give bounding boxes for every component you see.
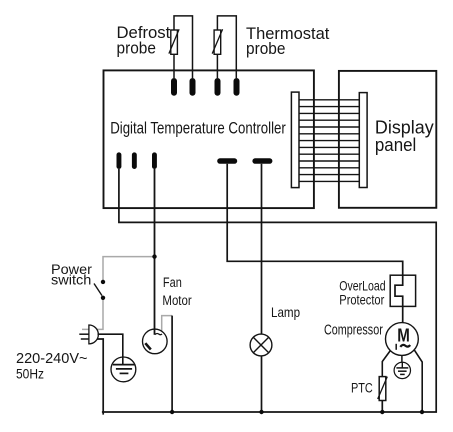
wire: plug middle to earth ground — [98, 334, 123, 364]
terminal pills top (4) — [171, 78, 240, 96]
wire: lamp top from pill5 — [261, 164, 263, 334]
ground (mains earth) — [111, 357, 136, 382]
wire: compressor bottom to ground — [401, 355, 403, 362]
junction dots on bottom rail — [170, 410, 174, 414]
svg-text:PTC: PTC — [351, 381, 373, 396]
overload protector box — [390, 275, 415, 306]
wire gray: power switch feed branch — [103, 257, 155, 281]
switch contact dots — [101, 280, 105, 284]
box: Digital Temperature Controller U1 — [104, 70, 314, 208]
ribbon cable (13 lines) — [299, 100, 359, 182]
fan motor circle — [143, 329, 168, 354]
wire: compressor right leg to rail — [414, 350, 422, 412]
ground (compressor earth) — [394, 362, 410, 378]
svg-text:Lamp: Lamp — [271, 304, 300, 320]
wire gray: switch to plug top prong — [82, 299, 103, 329]
compressor motor circle — [386, 323, 419, 356]
wire: left vertical below plug to rail — [97, 339, 103, 415]
1~ label — [395, 344, 397, 350]
connector right — [359, 93, 367, 188]
wire: lamp bottom to rail — [261, 356, 263, 412]
probe 2 loop wires (thermostat) — [217, 16, 236, 78]
svg-text:M: M — [397, 326, 410, 346]
thermistor defrost probe — [171, 30, 178, 54]
svg-text:panel: panel — [375, 135, 416, 155]
connector left — [291, 92, 299, 188]
svg-text:probe: probe — [117, 39, 156, 57]
fan brush tick — [145, 343, 151, 349]
wire: controller pill3 down into fan motor — [154, 169, 156, 335]
plug prong middle — [79, 333, 88, 335]
switch lever — [94, 284, 102, 296]
thermistor thermostat probe — [214, 30, 221, 54]
svg-text:Digital Temperature Controller: Digital Temperature Controller — [110, 120, 286, 138]
plug prong bottom — [81, 338, 89, 340]
plug (mains plug body) — [89, 325, 98, 344]
svg-text:Fan: Fan — [163, 275, 182, 290]
svg-text:switch: switch — [51, 271, 91, 287]
svg-text:50Hz: 50Hz — [16, 366, 44, 382]
svg-text:Motor: Motor — [162, 293, 192, 308]
wire: compressor left leg to PTC — [382, 351, 390, 377]
fan winding squiggle — [155, 333, 162, 334]
probe 1 loop wires (defrost) — [174, 16, 193, 78]
svg-text:probe: probe — [246, 40, 285, 58]
terminal pills horizontal (2) — [217, 158, 272, 164]
lamp circle — [250, 334, 272, 356]
junction dot: switch tee — [152, 254, 156, 258]
svg-text:Protector: Protector — [339, 292, 384, 308]
box: Display panel — [339, 71, 436, 208]
wire: fan motor right leg to rail — [171, 316, 173, 412]
PTC thermistor — [379, 377, 386, 401]
wire: PTC bottom to rail — [381, 401, 383, 413]
wire gray: fan motor staple left — [162, 316, 172, 331]
wire: pill4 to OLP with bimetal step — [227, 164, 403, 323]
svg-text:220-240V~: 220-240V~ — [16, 350, 88, 367]
wire: pill1 down, across y222, right side down, bottom rail — [102, 169, 436, 412]
terminal pills bottom-left (3) — [117, 152, 157, 169]
svg-text:Compressor: Compressor — [324, 323, 383, 339]
